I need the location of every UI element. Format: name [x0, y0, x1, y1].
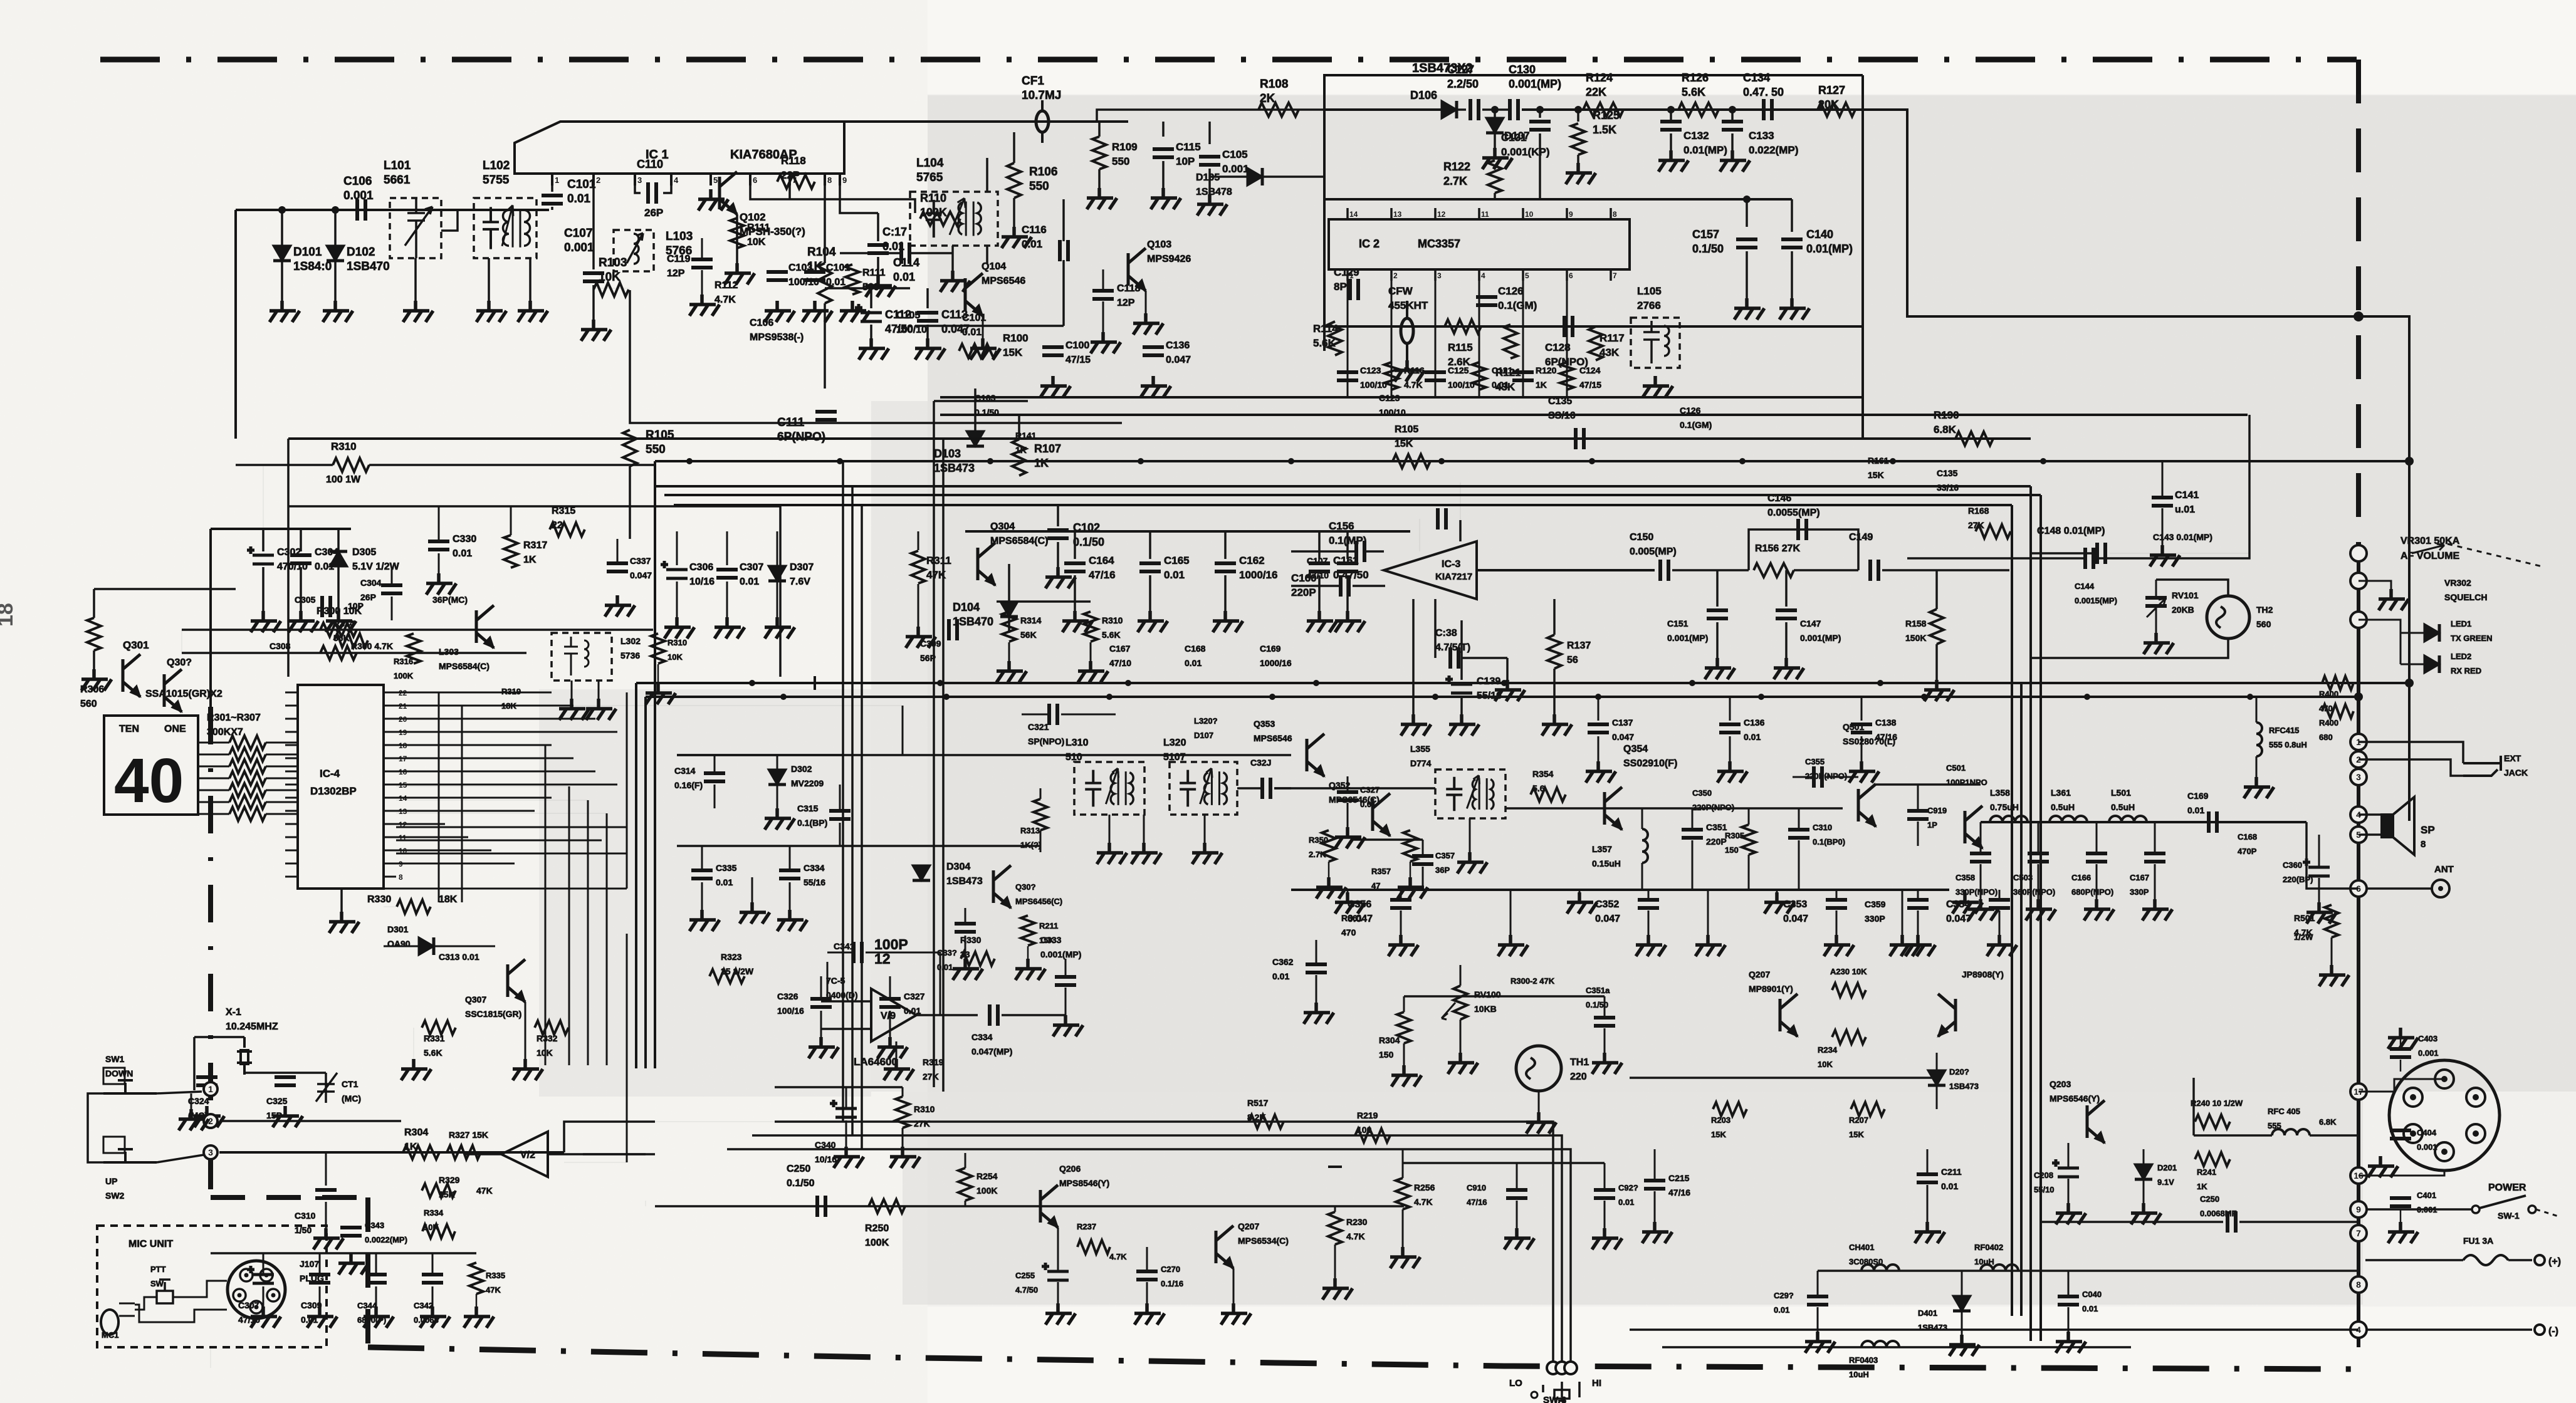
node [396, 786, 569, 787]
ground under C343 [338, 1253, 369, 1275]
wire [2318, 835, 2320, 866]
wire [1917, 821, 1919, 846]
capacitor C359 [1907, 900, 1929, 908]
wire [1794, 569, 1858, 571]
svg-text:R111: R111 [747, 222, 770, 233]
resistor R501 [2325, 905, 2338, 937]
capacitor C330 [428, 541, 449, 550]
thermistor TH2 [2207, 596, 2249, 639]
U1 pin 7 [788, 174, 791, 185]
U4 right pin 19 [384, 837, 396, 838]
wire [827, 962, 829, 1001]
wire [375, 1253, 377, 1273]
junction [1729, 106, 1736, 113]
wire [1980, 890, 1982, 899]
wire pin2 row [219, 1120, 401, 1122]
wire block left lower [1323, 213, 1326, 351]
junction on bus2 [1138, 458, 1144, 464]
connector pin at y=1742 [2350, 1083, 2367, 1100]
wire [2310, 1134, 2359, 1137]
ground under L102 sec [518, 301, 548, 322]
junction bus9 [1595, 694, 1601, 700]
wire [902, 1128, 904, 1147]
capacitor C315 [829, 811, 851, 819]
junction [1574, 106, 1582, 113]
wire [1328, 862, 1330, 877]
resistor R311a [1021, 915, 1035, 946]
wire to EXT sleeve [2359, 759, 2463, 776]
capacitor C107a [1337, 563, 1358, 571]
svg-text:C119: C119 [667, 254, 690, 264]
LED D501 [2424, 624, 2439, 642]
svg-text:1K: 1K [1536, 380, 1547, 390]
wire [1065, 988, 1067, 1015]
junction on bus2 [987, 458, 993, 464]
wire [319, 1286, 321, 1307]
wire [1861, 736, 1863, 761]
svg-text:C135: C135 [1937, 468, 1958, 478]
capacitor C127 [1470, 99, 1479, 120]
wire mid vertical B [851, 486, 854, 1135]
wire mesh C [606, 813, 608, 1065]
transistor Q203 [2087, 1100, 2105, 1143]
capacitor C327b [1337, 792, 1358, 800]
ground under C102 [802, 301, 832, 322]
wire [337, 566, 340, 611]
wire [1469, 818, 1471, 852]
svg-text:0.01: 0.01 [1744, 732, 1761, 742]
switch SW-3 [1543, 1382, 1579, 1399]
capacitor C502 [1907, 811, 1929, 819]
ground under C335 [689, 910, 720, 931]
resistor R353 [1403, 830, 1417, 862]
wire U4 pin wire [396, 810, 535, 812]
wire [173, 1281, 227, 1297]
wire U4 mesh extra2 [396, 840, 602, 842]
svg-text:C123: C123 [1379, 393, 1400, 403]
junction on bus8 [937, 680, 943, 686]
resistor R303 [320, 623, 357, 637]
capacitor C325 [275, 1077, 296, 1085]
wire [1791, 251, 1793, 298]
ground under C105 [1197, 194, 1227, 216]
capacitor C334 [779, 870, 800, 879]
capacitor C114 [867, 245, 889, 253]
wire [1412, 599, 1415, 680]
wire [840, 252, 901, 254]
ground under D401 [1949, 1335, 1979, 1356]
svg-text:0.01: 0.01 [1774, 1305, 1789, 1315]
U2 pin 14 [1346, 208, 1349, 219]
wire bus 2 [655, 460, 2409, 462]
IC U1 KIA7680AP body [515, 122, 844, 174]
trimmer CT1 [316, 1073, 337, 1103]
wire [2256, 756, 2258, 777]
U2 pin 10 [1522, 208, 1524, 219]
U4 left pin 2 [285, 705, 298, 707]
wire [1917, 910, 1919, 935]
inductor L358 [1990, 816, 2028, 822]
U4 left pin 7 [285, 771, 298, 773]
wire [1927, 1149, 1929, 1173]
svg-text:R190: R190 [1934, 409, 1959, 421]
diode D102 [327, 246, 344, 261]
U2 pin 4 [1478, 269, 1480, 281]
wire [1598, 697, 1600, 721]
wire SW3 b [752, 1135, 1562, 1361]
node [210, 1348, 211, 1368]
switch SW1 UP [103, 1149, 157, 1162]
capacitor C302 [247, 546, 274, 564]
wire [676, 582, 678, 617]
svg-text:C121: C121 [1492, 365, 1513, 375]
wire [1826, 776, 1858, 778]
wire U4 mesh extra3 [396, 853, 627, 855]
RV101 arrow [2147, 598, 2165, 617]
capacitor C322 [1262, 778, 1270, 799]
wire sw1 [157, 1092, 202, 1093]
wire [1400, 910, 1402, 935]
connector J501 shell [2389, 1060, 2500, 1171]
capacitor C125 [1425, 372, 1446, 380]
resistor R250 [869, 1199, 905, 1213]
wire [1262, 175, 1324, 178]
wire [1604, 1163, 1606, 1189]
capacitor C408 [2390, 1049, 2411, 1057]
wire [337, 529, 340, 551]
inductor L361 [2050, 816, 2087, 822]
capacitor C148 [2085, 548, 2093, 569]
resistor R236 [1851, 1102, 1885, 1116]
ground under C167 [2142, 899, 2172, 921]
svg-text:LO: LO [1509, 1378, 1522, 1389]
resistor R113 [846, 264, 859, 295]
resistor R332 [535, 1021, 568, 1035]
capacitor C311 [365, 1275, 387, 1283]
junction bus9 [780, 694, 787, 700]
wire [1716, 570, 1719, 607]
wire RF ground bus [1291, 889, 1949, 891]
wire [777, 755, 778, 769]
wire [1062, 260, 1065, 326]
wire [965, 1201, 966, 1206]
svg-text:7.6V: 7.6V [790, 576, 810, 587]
wire [1707, 890, 1709, 935]
MIC UNIT box (dashed) [97, 1226, 327, 1347]
wire [1162, 122, 1165, 137]
ground under R306 [81, 669, 112, 691]
ground under C354 [1987, 935, 2017, 956]
wire audio link [564, 1122, 655, 1152]
svg-text:C123: C123 [1360, 365, 1381, 375]
svg-text:C362: C362 [1272, 957, 1294, 967]
capacitor C132 [1660, 122, 1682, 130]
ground under R313b [1078, 661, 1108, 682]
diode D301 [419, 937, 434, 955]
wire [1208, 122, 1211, 144]
U1 pin 5 [709, 174, 712, 185]
transistor Q104 [965, 273, 983, 316]
svg-text:C134: C134 [1743, 71, 1770, 84]
ground under C140 [1779, 298, 1809, 320]
IF transformer L310 (dashed can) [1074, 762, 1144, 815]
wire [262, 529, 264, 551]
U4 left pin 3 [285, 718, 298, 720]
wire [1057, 505, 1059, 526]
junction on bus2 [1438, 458, 1445, 464]
wire [1943, 437, 2031, 440]
ground under CFW [1395, 360, 1425, 382]
wire [193, 1037, 196, 1090]
wire [839, 823, 841, 846]
wire [1204, 815, 1206, 843]
wire [300, 567, 302, 611]
capacitor C120 [1042, 347, 1064, 355]
U4 right pin 25 [384, 758, 396, 759]
resistor R327 [447, 1145, 481, 1159]
transistor Q307 [508, 959, 525, 1002]
wire [1494, 133, 1496, 148]
svg-text:R141: R141 [1015, 430, 1037, 441]
capacitor C134b [1438, 508, 1446, 529]
junction [1667, 106, 1675, 113]
wire [1692, 840, 1694, 890]
resistor R108 [1259, 103, 1299, 117]
wire [1672, 569, 1749, 571]
wire [1579, 890, 1581, 892]
ground on RF bus [1952, 892, 1982, 914]
wire [287, 439, 290, 506]
wire [1233, 1268, 1235, 1303]
ground on RF bus [1567, 892, 1597, 914]
wire [1964, 890, 1966, 892]
wire [1318, 575, 1321, 611]
U4 left pin 5 [285, 744, 298, 746]
wire [2239, 1221, 2359, 1223]
ground under L105 [1643, 376, 1673, 397]
wire [191, 1093, 192, 1109]
ground under C333 [1053, 1015, 1083, 1036]
wire [2331, 937, 2333, 965]
capacitor C333 [1055, 977, 1076, 985]
block outline right edge [1861, 75, 1864, 439]
wire [334, 261, 337, 301]
microphone MC1 [101, 1310, 118, 1335]
wire [777, 785, 778, 808]
wire [391, 597, 393, 620]
ground under C115 [1151, 188, 1181, 209]
capacitor C106 [357, 199, 365, 221]
wire [236, 464, 333, 466]
wire [1347, 776, 1349, 791]
wire mid vertical D [933, 401, 935, 1087]
wire connector bus [2357, 546, 2360, 1347]
wire U4 pin wire [396, 784, 488, 786]
wire [1577, 110, 1579, 122]
wire [775, 1086, 903, 1088]
capacitor C342a [990, 1004, 998, 1026]
svg-text:D401: D401 [1918, 1308, 1937, 1318]
wire U2 pin drop [1479, 281, 1480, 397]
wire [965, 1153, 966, 1168]
wire U4 mesh [396, 771, 595, 773]
wire [2068, 1179, 2070, 1203]
ground under D307 [765, 617, 795, 639]
U4 right pin 28 [384, 718, 396, 720]
junction on bus2 [1890, 458, 1896, 464]
capacitor C102 [804, 272, 825, 280]
wire [263, 1286, 264, 1307]
wire [2154, 822, 2156, 852]
wire [1334, 1206, 1336, 1212]
ground under C139 [1449, 714, 1479, 736]
wire [1785, 570, 1788, 607]
wire [1422, 867, 1424, 890]
wire [2400, 1060, 2402, 1072]
wire [1403, 996, 1405, 1012]
wire [1648, 890, 1650, 899]
transistor Q304b [978, 543, 995, 585]
junction on bus2 [1589, 458, 1595, 464]
wire mesh frame right [626, 692, 628, 889]
ground near pin [2379, 589, 2409, 610]
wire RF link1 [1505, 807, 1642, 810]
svg-text:R361: R361 [1341, 913, 1363, 923]
capacitor R120 [1512, 372, 1534, 380]
wire [1746, 251, 1748, 298]
capacitor C340 [830, 1100, 857, 1117]
U4 left pin 10 [285, 810, 298, 812]
IF transformer L102 (dashed can) [474, 198, 537, 258]
wire [1109, 815, 1111, 843]
ground under C118 [1091, 332, 1121, 353]
transistor Q103 [1128, 248, 1146, 291]
wire sw loop [88, 1093, 103, 1162]
L105 internal [1643, 321, 1669, 363]
svg-text:MPS6584(C): MPS6584(C) [990, 536, 1048, 546]
wire [1102, 301, 1104, 332]
svg-text:2.2/50: 2.2/50 [1447, 78, 1479, 90]
node [1419, 519, 1420, 551]
capacitor C307a [607, 563, 628, 571]
wire [266, 778, 298, 780]
wire [1291, 550, 1356, 553]
svg-text:100/10: 100/10 [1379, 407, 1406, 417]
node [462, 705, 903, 706]
ground under C132 [1658, 150, 1689, 172]
wire [1057, 1282, 1059, 1303]
wire [1040, 830, 1042, 852]
wire [902, 706, 904, 755]
ground under C119 [689, 295, 720, 316]
wire [726, 531, 728, 565]
ground under R222 [1390, 1247, 1420, 1268]
svg-text:C357: C357 [1435, 851, 1455, 860]
wire squelch row [1404, 995, 1605, 998]
ground under R125 [1566, 163, 1596, 184]
wire [2192, 1078, 2195, 1135]
resistor R354 [1531, 788, 1566, 801]
diode D105 [1247, 168, 1262, 185]
resistor R322 [709, 969, 745, 983]
wire [788, 185, 791, 199]
wire [325, 1152, 327, 1186]
svg-text:C136: C136 [1744, 717, 1765, 728]
svg-text:0.01: 0.01 [1360, 800, 1376, 809]
svg-text:555 0.8uH: 555 0.8uH [2269, 740, 2307, 749]
ground under RV100 [1448, 1053, 1478, 1074]
L302 internal [564, 637, 589, 675]
wire row A right [1522, 108, 1863, 111]
svg-text:6.8K: 6.8K [1934, 424, 1957, 436]
svg-text:C307: C307 [740, 562, 763, 573]
ground pin2 branch [581, 320, 611, 341]
capacitor C141 [2152, 498, 2173, 506]
capacitor C304a [381, 585, 402, 593]
resistor R124 [1583, 103, 1623, 117]
resistor R137 [1547, 635, 1561, 669]
op-amp V/2 buffer [501, 1132, 548, 1177]
U2 pin 2 [1390, 269, 1393, 281]
wire [1316, 975, 1317, 1003]
svg-text:C125: C125 [1448, 365, 1469, 375]
svg-text:100/10: 100/10 [1360, 380, 1387, 390]
ground under C138 load [1495, 680, 1525, 701]
capacitor C355b [1814, 766, 1822, 788]
node [814, 676, 816, 690]
inductor CH401 [1861, 1265, 1899, 1271]
wire [701, 882, 703, 910]
svg-text:C343: C343 [365, 1221, 384, 1230]
wire U4 mesh [396, 718, 595, 720]
wire [2143, 1149, 2145, 1164]
wire [1224, 531, 1227, 559]
wire [1402, 1149, 1404, 1178]
ground under C404 [2368, 1156, 2398, 1177]
capacitor C360 [2303, 858, 2330, 876]
svg-text:0.0022(MP): 0.0022(MP) [365, 1235, 407, 1244]
PTT switch [157, 1291, 173, 1303]
wire U4 pin wire [396, 758, 442, 759]
tuning coil L101 (dashed can) [390, 198, 441, 258]
transistor Q102 [720, 172, 737, 214]
connector pin at y=1332 [2350, 827, 2367, 843]
U1 pin 1 [551, 174, 553, 185]
U2 pin 8 [1610, 208, 1612, 219]
wire [1604, 1028, 1606, 1053]
wire [2400, 1038, 2402, 1046]
junction [2354, 692, 2363, 701]
capacitor C110 [648, 182, 656, 204]
svg-text:MPS9426: MPS9426 [1147, 254, 1191, 264]
wire [870, 288, 872, 308]
wire Q301 feed [94, 588, 236, 590]
resistor R109 [1092, 137, 1106, 169]
wire [915, 325, 1064, 327]
zener D203 [1928, 1070, 1945, 1085]
capacitor C157 [1736, 239, 1757, 248]
U4 right pin 21 [384, 810, 396, 812]
ground under U4 [329, 912, 359, 933]
transistor Q301 [123, 654, 140, 697]
wire mesh extra vert [545, 746, 547, 1065]
ground RF3 [1890, 935, 1920, 956]
connector J101 pin 1 [240, 1269, 253, 1281]
wire [918, 584, 919, 627]
wire U4 pin wire [396, 863, 515, 865]
wire U4 mesh [396, 731, 617, 733]
svg-text:0.001(MP): 0.001(MP) [1509, 78, 1561, 90]
